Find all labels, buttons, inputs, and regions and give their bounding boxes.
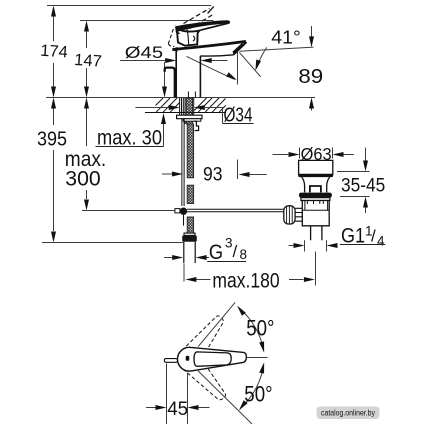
41 degree sloped leg xyxy=(239,52,260,77)
pop-up rod below counter xyxy=(182,118,184,206)
dimension max30 lower arrow (up to counter bottom) xyxy=(163,122,165,147)
drain boss square xyxy=(310,186,321,192)
washer second bar xyxy=(183,119,201,122)
41 degree reference line (89 top ref) xyxy=(240,47,314,51)
svg-text:catalog.onliner.by: catalog.onliner.by xyxy=(321,408,375,417)
dashed lever-back swing outline xyxy=(168,27,180,46)
upper 50 arc xyxy=(239,308,264,351)
dimension G1 1/4 xyxy=(289,245,294,247)
lower 50 arc xyxy=(240,365,263,409)
handle stub pin xyxy=(164,359,177,363)
drain cup xyxy=(299,160,333,174)
svg-text:45: 45 xyxy=(167,399,188,420)
threaded shank texture xyxy=(186,98,192,124)
svg-text:4: 4 xyxy=(377,234,385,249)
drain sub band xyxy=(301,198,330,201)
svg-text:300: 300 xyxy=(65,168,100,191)
dimension 147/max300 vertical line x=86.8 xyxy=(86,31,88,199)
svg-text:50°: 50° xyxy=(246,315,274,340)
drain neck xyxy=(302,177,330,192)
clamp knob xyxy=(284,206,295,224)
dimension max30 upper arrow (down to counter top) x=164 xyxy=(164,62,166,88)
drain tailpipe xyxy=(311,226,322,241)
rod below joint xyxy=(183,215,185,226)
counter hatching left block xyxy=(156,98,180,113)
dimension 45 arrows xyxy=(146,407,156,409)
svg-text:3: 3 xyxy=(225,236,233,251)
faucet: dashed raised-lever lines xyxy=(184,9,215,29)
counter bottom line xyxy=(145,112,226,114)
svg-text:/: / xyxy=(233,242,238,261)
spout tip inner face (aerator) xyxy=(233,44,243,53)
countertop hole edges and shank xyxy=(180,92,196,125)
flexible hose upper part xyxy=(187,124,193,178)
hose end fitting nut xyxy=(184,233,195,235)
counter hatching right block xyxy=(194,98,226,113)
svg-text:8: 8 xyxy=(240,247,248,262)
reference line lever closed level y=20.8 xyxy=(80,20,214,22)
dimension max.180 arrows xyxy=(197,279,211,281)
hose-end reference line y=210.2 xyxy=(82,210,180,212)
faucet body column xyxy=(176,48,200,98)
raised lever tip tick xyxy=(208,6,214,13)
reference line top (raised lever level y=5.2) xyxy=(47,5,211,7)
dimension Ø45 leader left xyxy=(120,60,166,62)
solid handle top view xyxy=(177,347,246,371)
svg-text:174: 174 xyxy=(40,42,69,62)
dimension 89 vertical x=311.4 xyxy=(311,26,313,111)
drain flange lip (thick) xyxy=(298,174,333,177)
drain body xyxy=(302,201,329,226)
spout rear point xyxy=(172,47,178,52)
nut step right xyxy=(194,121,199,130)
handle slot xyxy=(186,356,190,361)
dimension 93 xyxy=(162,173,172,175)
handle internal curves xyxy=(187,27,195,45)
drain: Ø63 dimension xyxy=(273,148,355,159)
G3/8 tail pipe xyxy=(184,242,195,263)
handle inner pad xyxy=(194,352,231,366)
+50 center line xyxy=(198,302,235,346)
max.180 right extension line xyxy=(315,252,317,286)
rotation arc with arrow xyxy=(187,56,235,79)
drain collar band (thick black) xyxy=(299,193,332,198)
pop-up rod hook behind faucet xyxy=(165,68,175,98)
svg-text:G: G xyxy=(209,241,223,264)
svg-text:max. 30: max. 30 xyxy=(97,126,162,149)
41 degree leader arrow xyxy=(258,47,267,63)
svg-text:41°: 41° xyxy=(271,27,301,47)
dashed handle rotated -50 xyxy=(173,344,230,406)
svg-text:/: / xyxy=(371,227,376,246)
svg-text:395: 395 xyxy=(37,127,67,150)
lever bottom edge xyxy=(201,23,230,30)
dimension G3/8 arrows xyxy=(164,257,173,259)
counter top surface line y=97.8 xyxy=(46,97,315,99)
dimension 35-45 xyxy=(337,148,370,213)
G1 1/4 thread ticks xyxy=(305,240,327,251)
dimension Ø45 leader right xyxy=(211,60,228,62)
svg-text:Ø45: Ø45 xyxy=(125,44,163,62)
horizontal pop-up rod to drain xyxy=(187,209,284,211)
dimension Ø34 arrows at counter hole xyxy=(135,108,222,124)
spout underside xyxy=(200,55,233,56)
max.180 left extension xyxy=(183,264,185,282)
spout tip outer face xyxy=(234,42,247,54)
svg-text:147: 147 xyxy=(74,51,103,71)
-50 center line xyxy=(198,371,252,424)
handle body white quad xyxy=(177,28,200,46)
dimension 45 extension lines xyxy=(167,364,188,424)
lever neck xyxy=(197,30,200,43)
svg-text:93: 93 xyxy=(203,164,223,186)
rod ball joint xyxy=(180,208,187,215)
svg-text:max.180: max.180 xyxy=(212,270,279,293)
horizontal center line right xyxy=(247,357,268,359)
flexible hose lower part xyxy=(187,217,193,233)
dimension 174/395 vertical line x=53.8 xyxy=(53,16,55,231)
svg-text:50°: 50° xyxy=(244,381,272,406)
svg-text:89: 89 xyxy=(298,65,323,88)
small fitting left of joint xyxy=(175,209,180,213)
tailpipe-end reference line y=242 xyxy=(42,242,183,244)
spout top edge (thick) xyxy=(172,41,246,49)
watermark xyxy=(317,407,380,420)
svg-text:35-45: 35-45 xyxy=(341,176,385,197)
spout outlet extension line x=237.7 xyxy=(237,52,239,179)
lever back cap xyxy=(175,28,180,34)
washer below counter xyxy=(177,115,202,119)
faucet lever wedge (top band) xyxy=(175,20,230,32)
dashed handle rotated +50 xyxy=(174,312,231,374)
